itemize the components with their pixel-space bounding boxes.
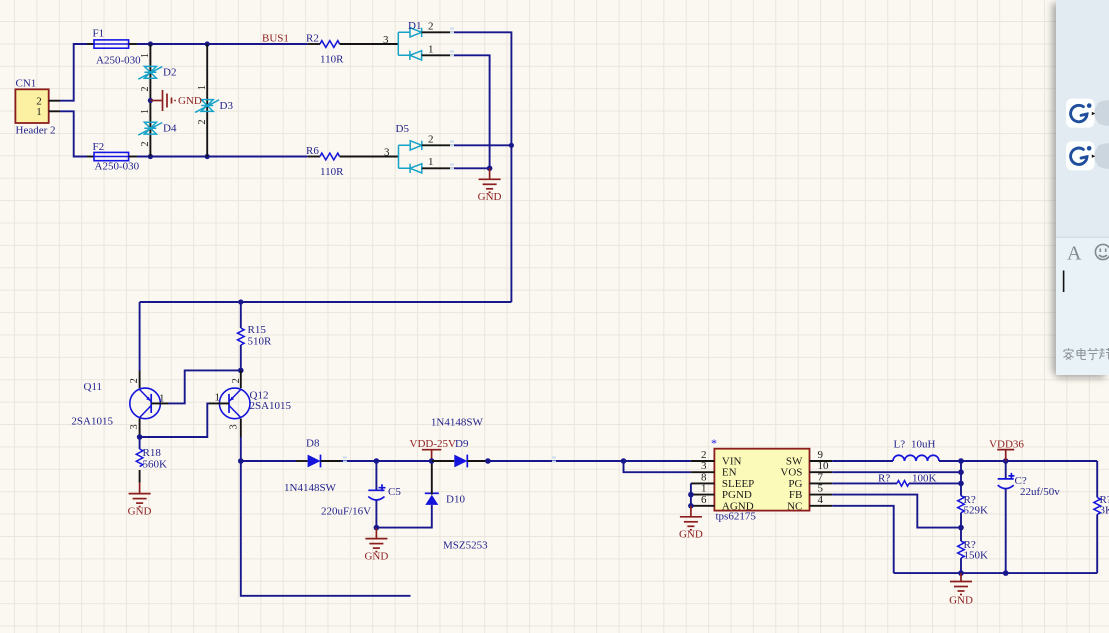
ground GND (under IC): [679, 506, 703, 541]
diode D8: [284, 438, 341, 495]
node junction bottom-left: [148, 154, 153, 159]
node junction D5 pin1: [487, 166, 493, 172]
diode pair D5: [396, 123, 455, 173]
svg-text:2SA1015: 2SA1015: [71, 416, 113, 428]
svg-text:9: 9: [818, 449, 824, 461]
wire main row to D8: [241, 460, 296, 462]
svg-text:1: 1: [36, 106, 42, 118]
svg-text:*: *: [711, 436, 717, 450]
ground GND (under C5): [364, 528, 388, 563]
capacitor C5: [321, 461, 401, 528]
wire Q12 emitter down: [240, 437, 242, 461]
svg-text:1N4148SW: 1N4148SW: [284, 482, 337, 494]
svg-text:A250-030: A250-030: [96, 55, 141, 67]
svg-text:F2: F2: [93, 141, 105, 153]
fuse F2: [87, 141, 140, 173]
wire FB jog: [832, 495, 961, 528]
svg-text:FB: FB: [789, 489, 802, 501]
svg-text:R15: R15: [248, 324, 267, 336]
node junction bottom-2: [205, 154, 210, 159]
diode pair D1: [398, 20, 454, 60]
svg-text:4: 4: [818, 494, 824, 506]
svg-text:2: 2: [140, 87, 151, 92]
svg-text:510R: 510R: [248, 336, 273, 348]
diode D4 (TVS): [138, 109, 177, 147]
node junction SW rail: [958, 458, 964, 464]
svg-text:D10: D10: [446, 494, 465, 506]
node junction C5 top: [374, 458, 380, 464]
resistor R18: [136, 437, 167, 483]
wire long bottom stub: [241, 461, 411, 596]
svg-text:GND: GND: [478, 191, 502, 203]
svg-text:560K: 560K: [143, 459, 168, 471]
svg-text:F1: F1: [93, 28, 105, 40]
svg-text:8: 8: [701, 471, 707, 483]
diode D2 (TVS): [138, 53, 176, 92]
wire Q11 bottom to Q12 base: [140, 403, 209, 437]
svg-text:GND: GND: [128, 506, 152, 518]
svg-text:VOS: VOS: [780, 467, 802, 479]
svg-text:R2: R2: [306, 33, 319, 45]
svg-text:CN1: CN1: [16, 78, 37, 90]
wire CN1 pin1 to F2: [60, 111, 87, 156]
svg-text:MSZ5253: MSZ5253: [443, 540, 488, 552]
wire bottom row to R6: [137, 156, 308, 158]
wire vertical D2-D4 column: [149, 44, 151, 157]
pin 4 NC: [787, 494, 832, 513]
node junction after D9: [485, 458, 491, 464]
wire D5 pin1: [454, 167, 490, 169]
ground GND (bar style, near D2): [150, 90, 201, 111]
pin 8 SLEEP: [691, 471, 754, 490]
svg-text:3: 3: [229, 424, 240, 429]
pin 3 EN: [691, 460, 737, 479]
svg-text:3: 3: [701, 460, 707, 472]
node junction top-2: [205, 41, 210, 46]
svg-text:SW: SW: [786, 456, 803, 468]
svg-text:1: 1: [140, 53, 151, 58]
svg-text:GND: GND: [364, 551, 388, 563]
op-amp U1 tps62175: [711, 436, 810, 523]
node junction bottom rail GND: [958, 570, 964, 576]
diode D9: [431, 417, 488, 468]
svg-text:10uH: 10uH: [911, 439, 936, 451]
diode D3 (TVS): [195, 85, 233, 125]
svg-text:GND: GND: [949, 595, 973, 607]
svg-text:6: 6: [701, 494, 707, 506]
resistor R? 3K: [1094, 461, 1109, 573]
pin 2 VIN: [691, 449, 742, 468]
svg-text:2: 2: [197, 120, 208, 125]
node junction Q12 collector: [238, 368, 244, 374]
wire vertical D3 column: [206, 44, 208, 157]
svg-text:VDD36: VDD36: [989, 439, 1024, 451]
wire to VDD node: [376, 460, 431, 462]
node junction C5 bottom: [374, 525, 380, 531]
resistor R? 100K: [832, 473, 961, 487]
artifact marks: [343, 28, 556, 463]
svg-text:NC: NC: [787, 500, 802, 512]
wire bottom rail: [894, 572, 1097, 574]
svg-text:Q11: Q11: [84, 381, 103, 393]
svg-text:PG: PG: [788, 478, 802, 490]
wire Q11 base up to Q12 collector: [168, 370, 241, 403]
resistor R? 150K: [958, 528, 988, 574]
node GND junction: [148, 98, 153, 103]
pin 7 PG: [788, 471, 832, 490]
ground GND (under R18): [128, 483, 152, 518]
svg-text:D2: D2: [163, 67, 176, 79]
wire VOS: [832, 471, 961, 473]
svg-text:GND: GND: [679, 529, 703, 541]
node junction VDD-25V: [429, 458, 435, 464]
svg-text:VIN: VIN: [722, 456, 742, 468]
svg-text:D4: D4: [163, 123, 177, 135]
svg-text:R6: R6: [306, 145, 319, 157]
svg-text:529K: 529K: [964, 505, 989, 517]
wire EN branch: [624, 461, 691, 472]
node junction bottom rail C7: [1003, 570, 1009, 576]
fuse F1: [87, 28, 141, 67]
wire down to Q11: [139, 302, 141, 371]
wire D5 pin2 to vertical: [454, 144, 511, 146]
svg-text:5: 5: [818, 483, 824, 495]
svg-text:110R: 110R: [320, 166, 344, 178]
svg-text:L?: L?: [894, 439, 906, 451]
svg-text:D1: D1: [408, 20, 421, 32]
transistor Q11: [71, 378, 168, 437]
svg-text:3: 3: [384, 147, 390, 159]
transistor Q12: [209, 370, 292, 437]
inductor L7: [832, 439, 961, 462]
resistor R6: [306, 145, 399, 178]
svg-text:2: 2: [701, 449, 707, 461]
ground GND (earth, right of D5): [478, 168, 502, 203]
svg-text:1: 1: [701, 483, 707, 495]
node junction VOS: [958, 469, 964, 475]
svg-text:R18: R18: [143, 447, 162, 459]
node junction EN branch: [621, 458, 627, 464]
wire SLEEP-PGND-AGND tie: [690, 483, 692, 505]
node junction R15 top: [238, 299, 243, 304]
svg-text:2: 2: [428, 134, 434, 146]
svg-text:GND: GND: [178, 95, 202, 107]
wire BUS1 top row: [137, 43, 308, 45]
svg-text:220uF/16V: 220uF/16V: [321, 506, 371, 518]
svg-text:1: 1: [428, 44, 434, 56]
svg-text:7: 7: [818, 471, 824, 483]
svg-text:2: 2: [428, 21, 434, 33]
svg-text:3K: 3K: [1100, 505, 1109, 517]
svg-text:C5: C5: [388, 486, 401, 498]
capacitor C7: [998, 461, 1061, 573]
svg-text:1: 1: [197, 85, 208, 90]
node junction top-left: [148, 41, 153, 46]
svg-text:10: 10: [818, 460, 830, 472]
wire D1 pin1 down: [454, 55, 490, 168]
svg-text:PGND: PGND: [722, 489, 752, 501]
svg-text:2: 2: [129, 378, 140, 383]
node junction PG: [958, 481, 964, 487]
svg-text:D9: D9: [455, 438, 469, 450]
resistor R15: [238, 302, 273, 370]
svg-text:150K: 150K: [964, 550, 989, 562]
svg-text:3: 3: [383, 34, 389, 46]
wire D8 to C5 node: [341, 460, 376, 462]
node junction AGND: [688, 503, 694, 509]
svg-text:22uf/50v: 22uf/50v: [1020, 486, 1060, 498]
wire NC jog: [832, 506, 894, 573]
wire top rail: [961, 460, 1097, 462]
svg-text:R?: R?: [878, 473, 890, 485]
svg-text:1: 1: [215, 392, 221, 404]
connector CN1: [15, 78, 60, 137]
svg-text:1N4148SW: 1N4148SW: [431, 417, 484, 429]
wire D1 pin2 to long vertical: [454, 32, 511, 302]
svg-text:A: A: [1067, 243, 1082, 265]
wire CN1 pin2 to F1: [60, 44, 87, 101]
zener diode D10: [425, 461, 488, 552]
wire D9 to IC: [488, 460, 691, 462]
svg-text:BUS1: BUS1: [262, 33, 289, 45]
svg-text:SLEEP: SLEEP: [722, 478, 754, 490]
svg-text:D3: D3: [220, 100, 234, 112]
svg-text:EN: EN: [722, 467, 737, 479]
node junction main row left: [238, 458, 244, 464]
svg-text:1: 1: [428, 156, 434, 168]
svg-text:3: 3: [129, 424, 140, 429]
svg-text:D8: D8: [306, 438, 320, 450]
svg-text:100K: 100K: [912, 473, 937, 485]
wire C5 bottom to D10: [376, 505, 431, 528]
wire long horizontal mid: [140, 301, 512, 303]
svg-text:D5: D5: [396, 123, 410, 135]
pin 10 VOS: [780, 460, 832, 479]
svg-text:1: 1: [140, 109, 151, 114]
svg-text:2SA1015: 2SA1015: [250, 400, 292, 412]
node junction FB divider: [958, 525, 964, 531]
node junction Q11 emitter bottom: [137, 434, 143, 440]
power port VDD36: [989, 439, 1024, 462]
svg-text:Header 2: Header 2: [16, 125, 56, 137]
node junction top rail C7: [1003, 458, 1009, 464]
pin 6 AGND: [691, 494, 754, 513]
ground GND (bottom rail): [949, 573, 973, 606]
resistor R2: [306, 33, 398, 66]
svg-text:1: 1: [159, 393, 165, 405]
svg-text:AGND: AGND: [722, 500, 754, 512]
node junction PGND: [688, 492, 694, 498]
svg-text:2: 2: [231, 378, 242, 383]
pin 1 PGND: [691, 483, 752, 502]
pin 5 FB: [789, 483, 832, 502]
svg-text:110R: 110R: [320, 54, 344, 66]
svg-text:A250-030: A250-030: [95, 161, 140, 173]
power port VDD-25V: [410, 438, 456, 461]
node junction D5 pin2: [509, 143, 514, 148]
svg-text:VDD-25V: VDD-25V: [410, 438, 456, 450]
svg-text:2: 2: [140, 142, 151, 147]
pin 9 SW: [786, 449, 832, 468]
resistor R? 529K: [958, 461, 988, 528]
